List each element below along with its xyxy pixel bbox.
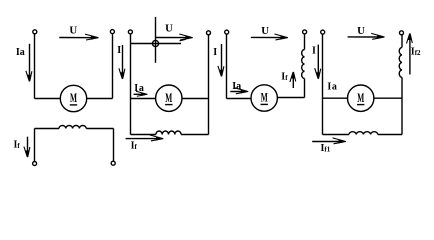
motor M1 bbox=[60, 85, 86, 111]
terminal T3 (field left) bbox=[33, 162, 37, 166]
svg-text:M: M bbox=[165, 91, 172, 105]
terminal T1 (top left) bbox=[33, 30, 37, 34]
svg-text:I: I bbox=[312, 46, 316, 57]
current arrow I bbox=[218, 44, 224, 77]
wire bottom left bbox=[131, 134, 156, 136]
motor M2 bbox=[156, 85, 182, 111]
field winding L1 bbox=[59, 126, 86, 129]
wire bottom right bbox=[181, 134, 208, 136]
svg-text:Ia: Ia bbox=[232, 81, 241, 92]
svg-text:U: U bbox=[357, 25, 365, 37]
indicator barb bbox=[180, 39, 186, 41]
current arrow If1 bbox=[312, 138, 346, 144]
svg-text:M: M bbox=[261, 91, 268, 105]
wire right vertical lower bbox=[401, 77, 403, 134]
wire to motor bbox=[323, 97, 349, 99]
current arrow If2 bbox=[407, 33, 413, 75]
wire field top right bbox=[86, 128, 113, 130]
terminal T5 (top left) bbox=[128, 30, 132, 34]
svg-text:M: M bbox=[357, 91, 364, 105]
series field winding L4 bbox=[399, 47, 402, 77]
horizontal line through indicator bbox=[131, 43, 182, 45]
current arrow Ia bbox=[134, 91, 148, 96]
svg-text:I: I bbox=[117, 45, 121, 56]
wire left vertical bbox=[130, 34, 132, 134]
terminal T2 (top right) bbox=[110, 30, 114, 34]
svg-text:U: U bbox=[261, 25, 269, 37]
wire right vertical upper bbox=[304, 34, 306, 49]
wire left vertical bbox=[226, 34, 228, 98]
wire bottom right bbox=[378, 134, 402, 136]
svg-text:Ia: Ia bbox=[16, 47, 25, 58]
terminal T9 (top left) bbox=[321, 30, 325, 34]
current arrow I bbox=[119, 45, 125, 80]
wire bottom left bbox=[323, 134, 350, 136]
wire right vertical upper bbox=[401, 35, 403, 47]
wire left vertical bbox=[34, 34, 36, 99]
svg-text:If1: If1 bbox=[321, 143, 331, 154]
voltage arrow U bbox=[156, 34, 194, 40]
svg-text:I: I bbox=[213, 47, 217, 58]
wire motor to right vertical bbox=[373, 97, 402, 99]
motor M3 bbox=[251, 85, 277, 111]
current arrow If bbox=[24, 137, 30, 158]
svg-text:Ia: Ia bbox=[327, 82, 337, 93]
wire field right vertical bbox=[113, 129, 115, 162]
wire motor to right vertical bbox=[182, 98, 209, 100]
lamp / indicator X1 bbox=[152, 40, 158, 46]
wire left vertical bbox=[322, 34, 324, 134]
voltage arrow U bbox=[348, 33, 385, 39]
terminal T6 (top right) bbox=[207, 31, 211, 35]
current arrow Ia bbox=[230, 88, 248, 94]
wire motor to right vertical bbox=[87, 98, 113, 100]
voltage arrow U bbox=[251, 34, 288, 40]
vertical line through indicator bbox=[155, 17, 157, 63]
current arrow I bbox=[315, 45, 321, 80]
wire left horizontal to motor bbox=[35, 98, 61, 100]
wire motor to right vertical bbox=[277, 97, 304, 99]
shunt field winding L5 bbox=[349, 132, 378, 135]
svg-text:If: If bbox=[281, 72, 288, 83]
terminal T8 (top right) bbox=[303, 30, 307, 34]
current arrow Ia bbox=[26, 44, 32, 82]
wire to motor bbox=[131, 98, 156, 100]
wire right vertical lower bbox=[304, 79, 306, 98]
wire field left vertical bbox=[34, 129, 36, 162]
wire right vertical bbox=[112, 34, 114, 99]
terminal T10 (top right) bbox=[400, 31, 404, 35]
svg-text:If: If bbox=[14, 139, 21, 150]
voltage arrow U bbox=[59, 34, 99, 40]
svg-text:U: U bbox=[165, 22, 173, 34]
motor M4 bbox=[348, 85, 374, 111]
svg-text:If2: If2 bbox=[411, 47, 421, 58]
terminal T4 (field right) bbox=[111, 161, 115, 165]
current arrow If bbox=[290, 71, 296, 88]
current arrow If bbox=[126, 135, 164, 141]
svg-text:U: U bbox=[69, 25, 77, 37]
terminal T7 (top left) bbox=[225, 30, 229, 34]
wire field top left bbox=[35, 128, 60, 130]
svg-text:M: M bbox=[70, 91, 77, 105]
shunt field winding L2 bbox=[156, 131, 181, 135]
wire right vertical bbox=[208, 35, 210, 134]
svg-text:If: If bbox=[131, 140, 138, 151]
series field winding L3 bbox=[302, 50, 305, 79]
wire to motor bbox=[227, 98, 252, 100]
